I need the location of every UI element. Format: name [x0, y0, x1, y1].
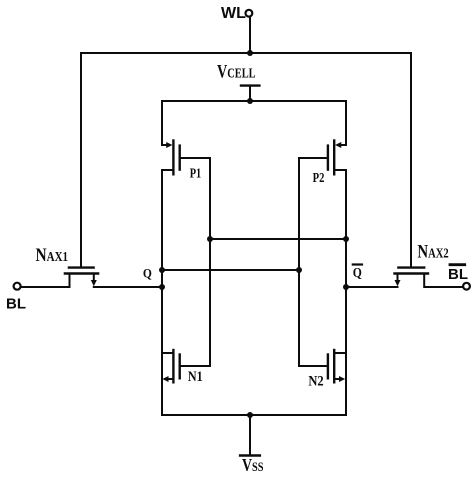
transistor N2 gate bar: [327, 355, 329, 379]
wire NAX1 left terminal: [21, 275, 70, 288]
transistor NAX2 gate bar: [398, 266, 424, 268]
wire NAX1 right terminal with source arrow: [93, 275, 95, 280]
svg-text:WL: WL: [221, 5, 246, 22]
svg-text:BL: BL: [448, 266, 468, 283]
ground VSS bar: [240, 454, 260, 457]
node junction gates1: [207, 236, 213, 242]
node junction Q: [159, 267, 165, 273]
terminal BLbar circle: [463, 283, 470, 290]
transistor NAX1 channel bar: [65, 272, 98, 274]
transistor N2 drain stub: [335, 352, 346, 354]
wire P2 drain stub: [335, 169, 346, 171]
svg-text:BL: BL: [6, 296, 26, 313]
wire inverter1 gate column: [209, 158, 211, 366]
wire VSS rail: [162, 414, 346, 416]
wire P1 drain stub: [162, 169, 172, 171]
wire VCELL stem: [249, 86, 251, 101]
svg-text:P1: P1: [190, 167, 202, 182]
wire Q line to gates2: [162, 269, 299, 271]
wire P2 gate stub: [299, 157, 327, 159]
transistor P1 source arrow: [162, 144, 167, 146]
transistor P2 source arrow: [341, 144, 346, 146]
svg-text:N1: N1: [188, 369, 203, 385]
transistor N1 source arrow: [169, 378, 173, 380]
wire N1 gate stub: [181, 365, 210, 367]
node junction Qbar access: [343, 284, 349, 290]
transistor P1 gate bar: [178, 146, 180, 170]
wire WL rail: [81, 52, 411, 54]
wire WL stem: [249, 17, 251, 53]
transistor N1 channel bar: [172, 350, 174, 382]
transistor N2 source arrow: [335, 378, 339, 380]
terminal WL circle: [246, 10, 253, 17]
wire P1 gate stub: [181, 157, 210, 159]
wire VCELL right drop to P2 source: [345, 101, 347, 145]
wire WL right drop to NAX2 gate: [410, 53, 412, 267]
wire VSS stem: [249, 415, 251, 456]
svg-text:Q: Q: [143, 266, 152, 281]
wire N2 gate stub: [299, 365, 327, 367]
node VCELL junction: [247, 98, 253, 104]
wire WL left drop to NAX1 gate: [80, 53, 82, 267]
node VSS junction: [247, 412, 253, 418]
svg-text:Q: Q: [353, 265, 362, 280]
svg-text:NAX2: NAX2: [417, 242, 448, 263]
wire inverter2 gate column: [298, 158, 300, 366]
wire node Qbar column: [345, 170, 347, 415]
transistor P2 gate bar: [327, 146, 329, 170]
transistor P1 channel bar: [172, 141, 174, 175]
node junction Q access: [159, 284, 165, 290]
transistor N1 drain stub: [162, 352, 172, 354]
transistor P2 channel bar: [333, 141, 335, 175]
svg-text:N2: N2: [308, 374, 323, 390]
transistor NAX1 gate bar: [69, 266, 94, 268]
svg-text:P2: P2: [313, 171, 325, 186]
node junction gates2: [296, 267, 302, 273]
wire NAX2 right terminal: [424, 275, 463, 288]
power symbol VCELL bar: [241, 84, 259, 86]
node WL junction: [247, 50, 253, 56]
svg-text:NAX1: NAX1: [36, 245, 69, 266]
transistor N1 gate bar: [178, 355, 180, 379]
wire node Q column: [161, 170, 163, 415]
wire cross-couple line gates1 to Qbar: [210, 238, 346, 240]
wire VCELL left drop to P1 source: [161, 101, 163, 145]
wire NAX2 left terminal with source arrow: [397, 275, 399, 280]
transistor NAX2 channel bar: [395, 272, 429, 274]
wire VCELL rail: [162, 100, 346, 102]
terminal BL circle: [14, 283, 21, 290]
transistor N2 channel bar: [333, 350, 335, 382]
svg-text:VCELL: VCELL: [217, 63, 256, 83]
node junction Qbar cross: [343, 236, 349, 242]
